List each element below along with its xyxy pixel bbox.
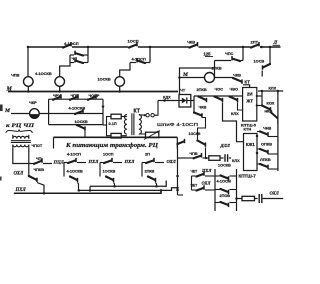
svg-text:М: М bbox=[182, 72, 189, 78]
svg-text:ЧРУ: ЧРУ bbox=[53, 94, 61, 98]
svg-text:ЧКР: ЧКР bbox=[29, 100, 37, 105]
svg-text:ЧВО: ЧВО bbox=[230, 86, 238, 91]
svg-text:ЧОНР: ЧОНР bbox=[89, 94, 100, 98]
svg-text:ЖТ: ЖТ bbox=[245, 99, 253, 104]
svg-text:ПХЛ: ПХЛ bbox=[88, 159, 100, 164]
svg-text:ОХЛ: ОХЛ bbox=[270, 190, 280, 195]
svg-text:ЧПС: ЧПС bbox=[225, 51, 234, 56]
svg-text:КТ: КТ bbox=[134, 108, 141, 114]
svg-text:ЧПКВ: ЧПКВ bbox=[34, 168, 45, 172]
svg-text:ЧКВ: ЧКВ bbox=[187, 40, 195, 45]
svg-text:М: М bbox=[6, 86, 13, 92]
svg-text:1ОСП: 1ОСП bbox=[128, 38, 139, 43]
svg-text:ЧПВ: ЧПВ bbox=[190, 152, 198, 156]
svg-text:ПХЛ: ПХЛ bbox=[124, 159, 136, 164]
svg-text:ЧП: ЧП bbox=[36, 157, 42, 161]
svg-text:4-1ОСКВ: 4-1ОСКВ bbox=[67, 170, 84, 174]
svg-text:ОХЛ: ОХЛ bbox=[14, 171, 24, 176]
svg-text:2ПОВ: 2ПОВ bbox=[220, 194, 231, 198]
svg-text:КЛХ: КЛХ bbox=[231, 111, 239, 116]
svg-text:4-1ОСП: 4-1ОСП bbox=[132, 56, 146, 61]
svg-text:КЖ1: КЖ1 bbox=[246, 142, 256, 147]
svg-text:ЧЕТ: ЧЕТ bbox=[191, 169, 199, 173]
svg-text:КОХ: КОХ bbox=[267, 100, 275, 105]
svg-text:ПХЛ: ПХЛ bbox=[15, 188, 27, 193]
svg-text:КТ: КТ bbox=[245, 80, 251, 85]
svg-text:КЛХ: КЛХ bbox=[269, 85, 277, 90]
svg-text:ПХЛ: ПХЛ bbox=[201, 168, 212, 173]
svg-text:ДЛЛ: ДЛЛ bbox=[220, 143, 231, 148]
svg-text:4-1ОСКВ: 4-1ОСКВ bbox=[35, 71, 52, 76]
svg-text:М: М bbox=[4, 108, 11, 114]
svg-text:1ОСКВ: 1ОСКВ bbox=[189, 132, 201, 136]
svg-text:КПТШ-7: КПТШ-7 bbox=[239, 173, 257, 178]
svg-text:4-1ОСМ: 4-1ОСМ bbox=[217, 179, 231, 183]
svg-text:ЧКВ: ЧКВ bbox=[199, 105, 207, 110]
svg-text:1ОСП: 1ОСП bbox=[103, 153, 114, 157]
svg-text:К питающим трансформ. РЦ: К питающим трансформ. РЦ bbox=[65, 142, 158, 149]
svg-text:ЧПОТ: ЧПОТ bbox=[32, 144, 43, 148]
svg-text:КТН: КТН bbox=[244, 127, 252, 132]
svg-text:125: 125 bbox=[204, 52, 212, 57]
svg-text:ЛПКВ: ЛПКВ bbox=[260, 157, 271, 162]
svg-text:ЧКВ: ЧКВ bbox=[233, 72, 241, 77]
svg-text:2И: 2И bbox=[247, 92, 253, 97]
svg-text:4-1ОСП: 4-1ОСП bbox=[67, 153, 81, 157]
svg-text:ОХЛ: ОХЛ bbox=[202, 181, 212, 186]
svg-text:КЛХ: КЛХ bbox=[232, 158, 240, 163]
svg-text:2ПКВ: 2ПКВ bbox=[197, 87, 207, 92]
svg-text:ОПКВ: ОПКВ bbox=[261, 142, 272, 147]
svg-text:ЧП: ЧП bbox=[72, 56, 78, 61]
svg-text:ШпиФ 4-10СП: ШпиФ 4-10СП bbox=[157, 122, 199, 128]
svg-text:КДХ: КДХ bbox=[163, 95, 171, 100]
svg-text:ОХЛ: ОХЛ bbox=[167, 159, 177, 164]
svg-text:ЧНВ: ЧНВ bbox=[263, 125, 272, 130]
svg-text:ЧПВ: ЧПВ bbox=[71, 94, 79, 98]
svg-text:НКВ: НКВ bbox=[265, 108, 273, 113]
svg-text:2П: 2П bbox=[145, 153, 150, 157]
svg-text:1ОСКВ: 1ОСКВ bbox=[75, 119, 88, 124]
svg-text:4-1ОСКВ: 4-1ОСКВ bbox=[69, 106, 86, 111]
svg-text:ПЦЛ: ПЦЛ bbox=[53, 159, 65, 164]
svg-text:2ПТ: 2ПТ bbox=[251, 40, 259, 45]
svg-text:1ОСКВ: 1ОСКВ bbox=[103, 170, 116, 174]
svg-text:0.1П: 0.1П bbox=[109, 121, 117, 126]
svg-text:ЧЕТ: ЧЕТ bbox=[191, 183, 199, 187]
svg-text:ЧТ: ЧТ bbox=[180, 87, 186, 92]
svg-text:к РЦ ЧП: к РЦ ЧП bbox=[6, 123, 35, 129]
svg-text:2ПКВ: 2ПКВ bbox=[145, 170, 155, 174]
svg-text:4-1ОСП: 4-1ОСП bbox=[64, 41, 79, 46]
svg-text:ЧОС: ЧОС bbox=[215, 86, 224, 91]
svg-text:1ОСКВ: 1ОСКВ bbox=[218, 163, 231, 167]
svg-text:1ОСКВ: 1ОСКВ bbox=[98, 76, 111, 81]
svg-text:ЧПВ: ЧПВ bbox=[11, 73, 20, 78]
svg-text:1ОСВ: 1ОСВ bbox=[254, 59, 265, 64]
